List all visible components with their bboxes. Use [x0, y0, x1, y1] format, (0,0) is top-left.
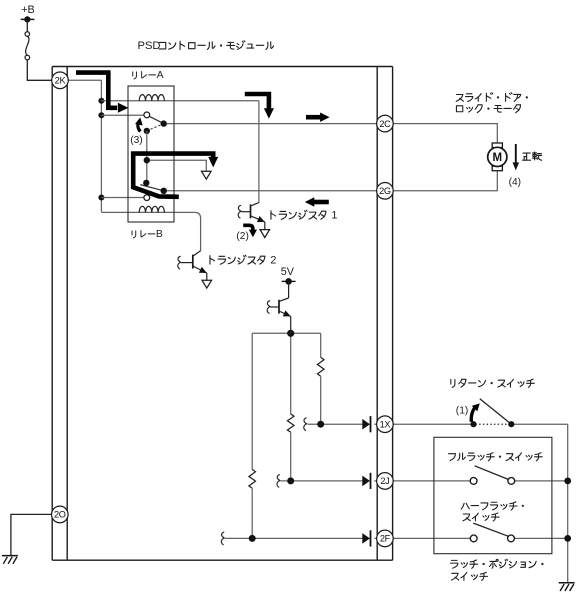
arrow (3) relay A actuation indicator	[138, 121, 140, 131]
wire 2J terminal to full-latch switch	[393, 480, 470, 482]
relay A NC node	[144, 128, 150, 134]
wire relay A NO contact feed	[101, 114, 144, 116]
wire motor to 2G terminal	[393, 171, 498, 191]
label half latch switch l2	[463, 513, 499, 521]
svg-text:(1): (1)	[456, 405, 468, 416]
label full latch switch	[449, 453, 543, 461]
node 1X pullup junction	[317, 421, 324, 428]
terminal 1X	[377, 416, 394, 433]
svg-text:(4): (4)	[509, 177, 521, 188]
label latch position switch l1	[450, 559, 543, 568]
wire 2K to internal bus	[69, 79, 102, 81]
wire 2G net: relay B common to terminal 2G	[164, 190, 378, 192]
wire relay A coil to transistor 1 collector	[258, 101, 260, 203]
ground 2O body ground (hatched)	[2, 555, 18, 557]
transistor Q3 (5V buffer)	[278, 300, 280, 314]
svg-text:2C: 2C	[379, 119, 391, 129]
relay A/B box	[128, 86, 174, 222]
svg-text:5V: 5V	[281, 266, 295, 278]
node emitter junction	[287, 330, 294, 337]
wire 2F row stub	[221, 532, 224, 545]
full latch switch contact left	[470, 478, 477, 485]
label PSD control module	[138, 40, 274, 52]
terminal 2C	[377, 115, 394, 132]
wire relay A NC to relay B NO	[146, 131, 148, 183]
svg-text:PSD: PSD	[138, 40, 161, 52]
wire fusible link to 2K	[27, 60, 51, 81]
node 2F-bus junction	[564, 535, 571, 542]
node 2F pullup junction	[249, 535, 256, 542]
relay A coil	[139, 95, 164, 101]
svg-text:+B: +B	[21, 4, 35, 16]
relay A contact blade	[148, 115, 164, 123]
resistor R1	[317, 357, 324, 376]
arrow forward-rotation indicator	[515, 144, 517, 164]
label slide door line1	[456, 93, 528, 102]
wire Q2 base continuation mark	[178, 256, 181, 269]
resistor R3	[249, 469, 256, 488]
wire coil B line	[101, 211, 174, 213]
motor brush bottom	[492, 166, 502, 171]
motor brush top	[492, 143, 502, 148]
wire coil B to transistor 2 collector	[174, 212, 201, 250]
svg-text:2O: 2O	[54, 510, 66, 520]
wire full-latch switch to right bus	[515, 480, 568, 482]
current arrow down to 2C wire	[245, 94, 269, 109]
wire Q1 base continuation mark	[238, 205, 241, 218]
latch position switch box	[434, 437, 552, 553]
return switch blade	[480, 399, 512, 425]
svg-text:2K: 2K	[55, 76, 67, 86]
svg-text:(3): (3)	[130, 135, 142, 146]
PSD control module box	[52, 66, 392, 68]
label latch position switch l2	[451, 572, 487, 580]
wire Q3 base continuation mark	[267, 301, 270, 314]
return switch dashed rest position	[476, 423, 510, 425]
half latch switch blade	[473, 523, 508, 536]
relay A NO terminal	[144, 112, 150, 118]
node 2J pullup junction	[287, 477, 294, 484]
node bus-relayB-contact junction	[98, 195, 104, 201]
label transistor 2	[210, 255, 276, 267]
terminal 2J	[377, 473, 394, 490]
fusible link F1	[25, 32, 30, 37]
terminal 2F	[377, 530, 394, 547]
terminal 2K	[52, 72, 69, 89]
label relay B	[132, 229, 163, 240]
svg-text:2: 2	[270, 255, 276, 267]
motor M1 slide door lock motor	[488, 147, 507, 166]
svg-text:1X: 1X	[380, 419, 391, 429]
label transistor 1	[271, 210, 337, 222]
diode D1	[362, 419, 370, 430]
full latch switch blade	[475, 466, 509, 480]
half latch switch contact left	[470, 535, 477, 542]
terminal 2O	[52, 506, 69, 523]
wire coil A line	[101, 100, 259, 102]
node 5V supply	[282, 280, 296, 282]
arrow (1) return switch actuation indicator	[471, 406, 476, 422]
label relay A	[133, 70, 164, 81]
wire 2C net: relay A common to terminal 2C	[164, 123, 378, 125]
resistor R2	[287, 414, 294, 432]
svg-text:B: B	[156, 229, 163, 240]
ground Q2 emitter (open triangle)	[202, 280, 212, 288]
svg-text:2G: 2G	[379, 186, 391, 196]
node bus-coilA junction	[98, 98, 104, 104]
label half latch switch l1	[461, 502, 524, 510]
diode D2	[362, 476, 370, 487]
wire 2O to body ground	[11, 514, 52, 555]
wire relay A ground stub	[147, 160, 207, 171]
arrow (2) transistor 1 on indicator	[243, 225, 253, 230]
wire 2F terminal to half-latch switch	[393, 537, 470, 539]
wire +B feed bar	[21, 18, 35, 20]
wire 1X terminal to return switch	[393, 423, 474, 425]
transistor Q1 (transistor 1)	[250, 204, 252, 218]
current arrow from 2K into relay A contact	[76, 73, 117, 108]
node bus-relayA-contact junction	[98, 112, 104, 118]
relay A common node	[161, 120, 167, 126]
wire middle divider branch	[290, 333, 292, 414]
relay B coil	[139, 206, 164, 212]
svg-text:M: M	[493, 152, 503, 164]
wire internal +B bus vertical	[100, 80, 102, 212]
label return switch	[451, 379, 535, 387]
wire return switch to right bus	[511, 423, 567, 425]
label slide door line2	[456, 105, 520, 113]
wire divider rail	[252, 332, 321, 334]
current arrow relay B to ground	[133, 154, 213, 197]
full latch switch contact right	[508, 478, 515, 485]
return switch node left	[470, 421, 476, 427]
ground switch return (hatched)	[559, 582, 575, 584]
relay A alternate position (dashed)	[147, 124, 164, 131]
relay B NC terminal	[144, 195, 150, 201]
wire 2C terminal to motor	[393, 124, 498, 143]
node relay ground junction	[144, 157, 150, 163]
terminal 2G	[377, 183, 394, 200]
current arrow leftward on 2G wire	[313, 200, 329, 205]
wire relay B NC contact feed	[101, 197, 144, 199]
svg-text:2J: 2J	[380, 476, 389, 486]
node +B junction	[24, 16, 30, 22]
relay B NO node	[143, 180, 149, 186]
ground relay contact (open triangle)	[202, 171, 212, 179]
relay B common node	[161, 188, 167, 194]
wire right ground bus	[567, 424, 569, 582]
svg-text:(2): (2)	[236, 231, 248, 242]
transistor Q2 (transistor 2)	[192, 255, 194, 269]
svg-text:2F: 2F	[380, 534, 391, 544]
wire +B to fusible link	[26, 19, 28, 32]
node 2J-bus junction	[564, 478, 571, 485]
wire 1X row stub	[304, 418, 307, 431]
svg-text:1: 1	[331, 210, 337, 222]
wire right divider branch	[320, 333, 322, 357]
relay B contact blade	[140, 185, 163, 191]
label forward rotation	[523, 152, 542, 160]
return switch node right	[508, 421, 514, 427]
current arrow rightward on 2C wire	[306, 115, 321, 120]
half latch switch contact right	[508, 535, 515, 542]
wire half-latch switch to right bus	[515, 537, 568, 539]
svg-text:A: A	[157, 70, 164, 81]
diode D3	[362, 533, 370, 544]
wire 2J row stub	[277, 475, 280, 488]
wire left divider branch	[251, 333, 253, 469]
ground Q1 emitter (open triangle)	[260, 230, 270, 238]
